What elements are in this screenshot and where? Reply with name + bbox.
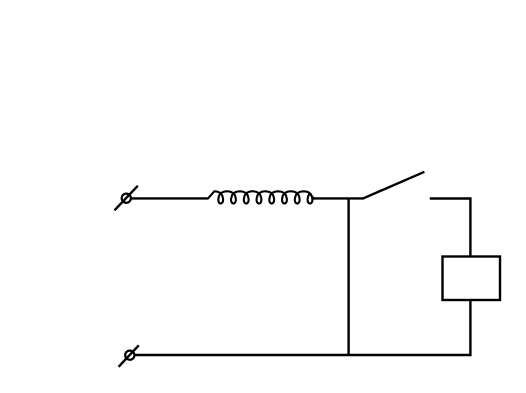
bottom wire	[135, 354, 472, 356]
node junction	[347, 198, 349, 355]
wire T1 to inductor	[132, 197, 209, 199]
wire box to bottom	[469, 300, 471, 356]
terminal T1 (top input)	[115, 186, 138, 211]
wire inductor to switch pole	[312, 197, 364, 199]
switch S1 blade	[363, 172, 424, 199]
load box K1	[443, 257, 501, 301]
terminal T2 (bottom input)	[119, 345, 139, 367]
switch S1 right contact wire	[430, 199, 471, 258]
inductor L1	[208, 191, 314, 203]
